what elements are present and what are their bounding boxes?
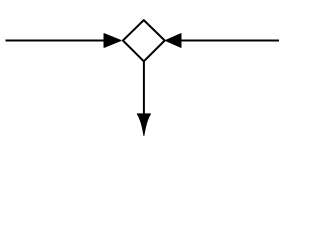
decision diamond gateway: [123, 20, 165, 61]
right arrowhead: [166, 34, 181, 48]
wire outgoing vertical flow line: [143, 62, 145, 115]
wire right incoming flow line: [180, 40, 279, 42]
wire left incoming flow line: [6, 40, 106, 42]
bottom arrowhead: [137, 114, 150, 136]
left arrowhead: [104, 34, 121, 48]
